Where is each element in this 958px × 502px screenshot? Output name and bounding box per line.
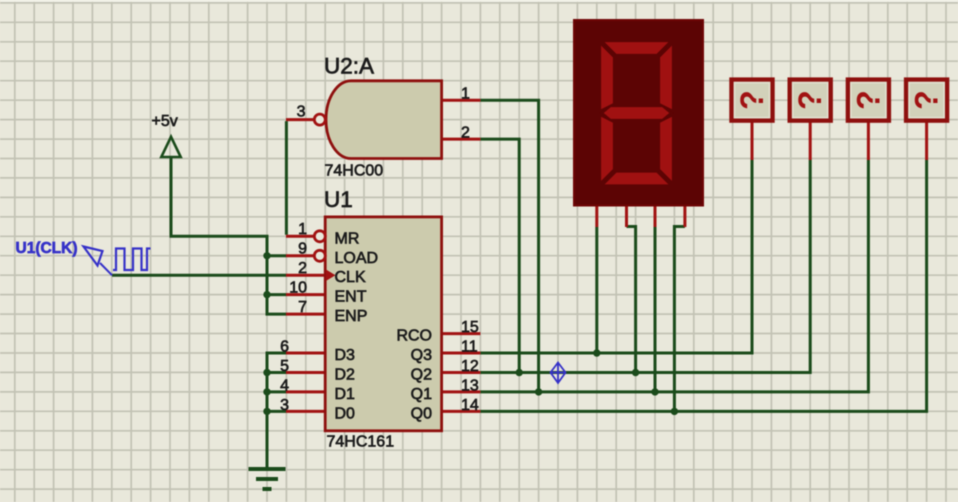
svg-text:15: 15: [461, 319, 479, 336]
svg-text:2: 2: [461, 124, 470, 141]
svg-text:3: 3: [280, 397, 289, 414]
svg-text:?: ?: [909, 90, 945, 110]
svg-text:11: 11: [461, 338, 478, 355]
svg-text:6: 6: [280, 338, 289, 355]
svg-text:1: 1: [461, 86, 470, 103]
svg-text:CLK: CLK: [335, 269, 366, 286]
svg-text:74HC161: 74HC161: [327, 434, 395, 451]
svg-text:Q1: Q1: [411, 386, 432, 403]
svg-text:RCO: RCO: [396, 328, 432, 345]
svg-text:?: ?: [792, 90, 828, 110]
svg-text:+5v: +5v: [152, 113, 178, 130]
svg-text:12: 12: [461, 358, 479, 375]
svg-text:U1: U1: [324, 187, 353, 212]
svg-text:13: 13: [461, 377, 479, 394]
svg-text:Q2: Q2: [411, 366, 432, 383]
svg-text:10: 10: [289, 279, 307, 296]
svg-text:3: 3: [297, 104, 306, 121]
svg-text:D0: D0: [335, 405, 356, 422]
svg-text:ENP: ENP: [335, 308, 368, 325]
svg-text:Q0: Q0: [411, 405, 432, 422]
svg-text:D1: D1: [335, 386, 356, 403]
svg-text:D3: D3: [335, 347, 356, 364]
svg-text:U2:A: U2:A: [324, 54, 374, 79]
svg-text:MR: MR: [335, 230, 360, 247]
svg-text:Q3: Q3: [411, 347, 432, 364]
svg-text:U1(CLK): U1(CLK): [16, 240, 78, 257]
svg-text:14: 14: [461, 397, 479, 414]
svg-text:?: ?: [734, 90, 770, 110]
svg-text:LOAD: LOAD: [335, 250, 379, 267]
svg-text:ENT: ENT: [335, 289, 367, 306]
svg-text:4: 4: [280, 377, 289, 394]
svg-text:D2: D2: [335, 366, 356, 383]
svg-text:1: 1: [298, 221, 307, 238]
svg-text:9: 9: [298, 241, 307, 258]
svg-text:7: 7: [298, 299, 307, 316]
svg-text:2: 2: [298, 260, 307, 277]
svg-text:5: 5: [280, 358, 289, 375]
svg-text:?: ?: [850, 90, 886, 110]
svg-text:74HC00: 74HC00: [325, 163, 384, 180]
